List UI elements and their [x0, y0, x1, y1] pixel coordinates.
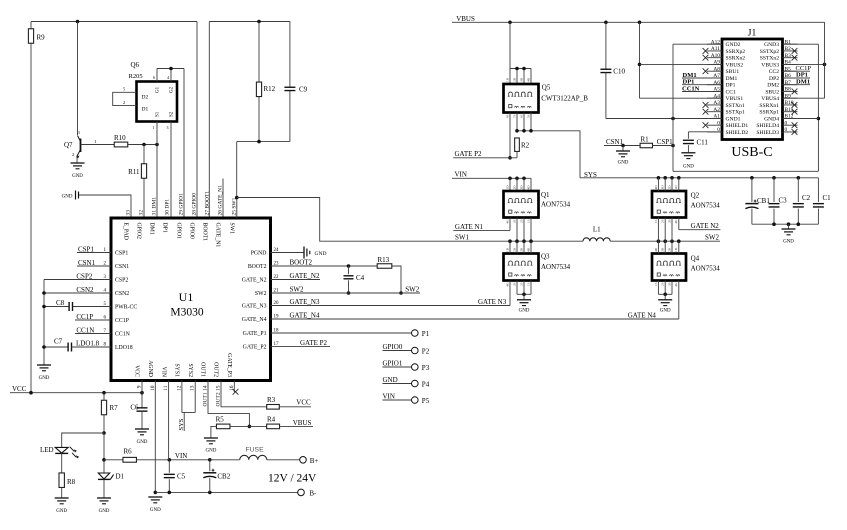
svg-text:4: 4	[167, 75, 169, 80]
wire SYS to Q2 drains	[658, 178, 678, 191]
ground D1	[97, 498, 111, 514]
svg-text:7S: 7S	[512, 114, 516, 118]
svg-text:GND4: GND4	[764, 116, 779, 122]
svg-text:CSN1: CSN1	[606, 138, 624, 146]
svg-text:GND: GND	[618, 161, 629, 166]
svg-text:Q7: Q7	[64, 141, 73, 149]
svg-text:CC1: CC1	[726, 89, 736, 95]
svg-text:USB-C: USB-C	[731, 145, 772, 160]
svg-text:VBUS3: VBUS3	[761, 62, 779, 68]
svg-text:GATE_P2: GATE_P2	[243, 344, 267, 350]
wire OUT1 pin 14 to R5/R4 node	[208, 381, 251, 429]
svg-text:GATE N3: GATE N3	[478, 298, 507, 306]
svg-text:C5: C5	[177, 473, 186, 481]
wire VCC pin 9	[141, 381, 143, 393]
svg-text:CSN2: CSN2	[115, 291, 129, 297]
svg-text:3S: 3S	[667, 219, 671, 223]
wire CC1P pin 6 stub	[75, 313, 111, 321]
svg-text:1D: 1D	[674, 247, 678, 252]
svg-text:GPIO1: GPIO1	[176, 223, 182, 240]
resistor R8	[59, 473, 76, 498]
svg-text:CC1P: CC1P	[76, 313, 93, 321]
svg-text:AON7534: AON7534	[541, 263, 571, 271]
transistor Q1 AON7534	[504, 185, 571, 224]
svg-text:2: 2	[72, 152, 74, 157]
resistor R9	[28, 22, 45, 393]
transistor Q2 AON7534	[652, 185, 720, 224]
op-amp U1 M3030 body	[104, 185, 280, 407]
connector P2	[412, 347, 430, 355]
wire ground loop below USB-C	[673, 44, 820, 171]
node SYS label	[178, 413, 185, 432]
capacitor C4	[344, 266, 365, 295]
svg-text:VBUS: VBUS	[456, 15, 475, 23]
svg-text:D2: D2	[142, 95, 149, 101]
resistor R2	[515, 138, 530, 158]
svg-text:Q2: Q2	[691, 192, 700, 200]
svg-text:LDO1.8: LDO1.8	[76, 340, 100, 348]
svg-text:GATE P2: GATE P2	[455, 150, 483, 158]
wire GND4 pin B12	[783, 118, 819, 120]
wire DP1 pin A6	[682, 79, 722, 86]
svg-text:CB2: CB2	[217, 473, 230, 481]
svg-text:DM1: DM1	[726, 76, 738, 82]
svg-text:G1: G1	[156, 86, 161, 93]
svg-text:R11: R11	[128, 168, 140, 176]
svg-text:GATE_N1: GATE_N1	[215, 223, 221, 248]
svg-text:GPIO0: GPIO0	[383, 343, 403, 351]
svg-text:R6: R6	[124, 448, 133, 456]
wire DP2 pin B6 DP1	[783, 72, 811, 79]
svg-text:DM2: DM2	[767, 83, 779, 89]
svg-text:GATE_N2: GATE_N2	[290, 272, 320, 280]
wire Q5 gate	[508, 113, 512, 160]
ground Q4	[658, 300, 672, 314]
resistor R3	[267, 396, 280, 409]
svg-text:1S: 1S	[654, 282, 658, 286]
connector P3	[412, 364, 430, 372]
svg-text:1D: 1D	[505, 185, 509, 190]
wire BOOT2 pin 23	[271, 259, 378, 268]
diode D1 zener	[98, 473, 125, 498]
svg-text:33: 33	[126, 210, 132, 216]
svg-text:CWT3122AP_B: CWT3122AP_B	[541, 95, 588, 103]
svg-text:3D: 3D	[519, 247, 523, 252]
svg-text:PWR-CC: PWR-CC	[115, 305, 137, 311]
svg-text:5S: 5S	[526, 114, 530, 118]
wire Q4 sources to ground	[658, 281, 672, 300]
svg-text:P1: P1	[422, 330, 430, 338]
wire VBUS to Q5 drains	[510, 22, 531, 84]
svg-text:DP1: DP1	[726, 83, 736, 89]
svg-text:1S: 1S	[526, 282, 530, 286]
svg-text:Q1: Q1	[541, 191, 550, 199]
svg-text:CSN1: CSN1	[78, 259, 96, 267]
svg-text:SSRXp2: SSRXp2	[726, 49, 746, 55]
svg-text:26 GATE_N1: 26 GATE_N1	[218, 185, 224, 216]
wire SW2 rail	[610, 234, 720, 244]
svg-text:4D: 4D	[654, 185, 658, 190]
wire CSN1 pin 2 stub	[77, 259, 111, 267]
wire R10 to DM1 node	[128, 143, 159, 147]
svg-text:3D: 3D	[519, 185, 523, 190]
svg-text:C9: C9	[299, 86, 308, 94]
wire SYS1 SYS2 pins 12 13	[182, 381, 195, 413]
transistor Q5 CWT3122AP_B	[504, 77, 589, 118]
svg-text:4G: 4G	[674, 282, 678, 287]
connector B-	[298, 489, 317, 497]
wire CSP1 pin 1 stub	[77, 246, 111, 254]
svg-text:LED: LED	[40, 446, 54, 454]
capacitor C7 on LDO18 pin 8	[44, 338, 111, 352]
wire Q1 sources to SW1	[517, 218, 531, 242]
svg-text:3S: 3S	[512, 219, 516, 223]
wire OUT2 pin 15 to R3	[221, 381, 267, 407]
svg-text:LDO18: LDO18	[115, 345, 133, 351]
svg-text:2D: 2D	[667, 185, 671, 190]
svg-text:DM1: DM1	[796, 78, 810, 85]
svg-text:SSTXp1: SSTXp1	[726, 110, 745, 116]
svg-text:4G: 4G	[505, 219, 509, 224]
wire CC2 pin B5 CC1P	[783, 65, 812, 72]
resistor R7	[101, 393, 118, 433]
svg-text:C11: C11	[697, 139, 709, 147]
svg-text:Q6: Q6	[131, 61, 140, 69]
svg-text:VBUS: VBUS	[293, 419, 312, 427]
svg-text:SHIELD3: SHIELD3	[756, 130, 779, 136]
svg-text:Q4: Q4	[691, 255, 700, 263]
svg-text:CC1P: CC1P	[115, 318, 129, 324]
svg-text:GND: GND	[137, 440, 148, 445]
svg-text:GATE N2: GATE N2	[691, 222, 720, 230]
svg-text:SW2: SW2	[255, 291, 267, 297]
wire ground bus GND2 pin A12	[673, 44, 722, 171]
wire Q5 sources to SYS	[515, 113, 580, 178]
svg-text:SYS2: SYS2	[187, 363, 193, 377]
svg-text:1D: 1D	[674, 185, 678, 190]
svg-text:SHIELD4: SHIELD4	[756, 123, 779, 129]
svg-text:2S: 2S	[519, 282, 523, 286]
svg-text:GATE_N4: GATE_N4	[290, 312, 320, 320]
svg-text:C2: C2	[802, 194, 811, 202]
svg-text:C7: C7	[54, 338, 63, 346]
connector P4	[412, 380, 430, 388]
ground CSN1	[616, 146, 630, 166]
wire R6 to VIN node	[137, 452, 210, 462]
svg-text:SW2: SW2	[405, 286, 420, 294]
svg-text:R8: R8	[67, 478, 76, 486]
svg-text:P5: P5	[422, 397, 430, 405]
svg-text:R7: R7	[110, 404, 119, 412]
wire Q3 gate to GATE_N3	[509, 281, 511, 306]
svg-text:BOOT2: BOOT2	[248, 264, 267, 270]
svg-text:31 DM1: 31 DM1	[152, 197, 158, 216]
wire CSN1 stub	[604, 138, 640, 147]
svg-text:3S: 3S	[512, 282, 516, 286]
svg-text:R3: R3	[267, 396, 276, 404]
svg-text:SW1: SW1	[229, 223, 235, 235]
wire SW2 to Q4 drains	[658, 241, 678, 253]
svg-text:GATE_N3: GATE_N3	[242, 304, 267, 310]
wire SYS rail	[580, 171, 818, 180]
svg-text:3D: 3D	[661, 185, 665, 190]
capacitor C6	[130, 393, 147, 429]
svg-text:D1: D1	[116, 473, 125, 481]
wire E_PAD pin 33 to ground	[79, 195, 131, 218]
svg-text:SSRXn1: SSRXn1	[759, 103, 779, 109]
svg-text:1D: 1D	[505, 77, 509, 82]
svg-text:CSP1: CSP1	[115, 251, 128, 257]
wire VBUS1 pin A4	[640, 97, 723, 99]
wire VBUS2 pin A9	[640, 63, 723, 65]
transistor Q4 AON7534	[652, 247, 720, 286]
svg-text:SBU1: SBU1	[726, 69, 740, 75]
svg-text:3D: 3D	[661, 247, 665, 252]
wire C10 to GND1 pin A1	[606, 117, 722, 121]
svg-text:L1: L1	[593, 226, 601, 234]
svg-text:GND: GND	[205, 449, 216, 454]
wire PGND pin 24	[271, 252, 305, 254]
svg-text:DP1: DP1	[162, 223, 168, 233]
LED	[40, 444, 79, 459]
svg-text:2D: 2D	[512, 185, 516, 190]
svg-text:AON7534: AON7534	[691, 202, 721, 210]
svg-text:4D: 4D	[526, 247, 530, 252]
svg-text:CSP1: CSP1	[657, 138, 673, 146]
wire CSP2 pin 3	[44, 273, 111, 281]
resistor R6	[104, 448, 136, 463]
svg-text:FUSE: FUSE	[246, 447, 265, 454]
svg-text:GND2: GND2	[726, 42, 741, 48]
svg-text:R12: R12	[264, 85, 276, 93]
svg-text:6S: 6S	[519, 114, 523, 118]
wire VIN pin 11 drop	[168, 381, 170, 460]
svg-text:OUT1: OUT1	[200, 362, 206, 377]
connector P1	[412, 330, 430, 338]
no-connect marks J1 left pins	[703, 48, 709, 128]
wire CSN2 pin 4	[44, 286, 111, 294]
svg-text:S2: S2	[170, 111, 175, 117]
wire R3 to VCC	[279, 399, 311, 407]
inductor L1	[583, 226, 610, 242]
svg-text:SSTXn1: SSTXn1	[726, 103, 745, 109]
svg-text:U1: U1	[179, 290, 194, 304]
transistor Q3 AON7534	[504, 247, 571, 286]
svg-text:GPIO1: GPIO1	[383, 360, 403, 368]
wire Q6 gates G1 G2 to GPIO1	[153, 67, 184, 82]
svg-text:R2: R2	[521, 142, 530, 150]
svg-text:P3: P3	[422, 364, 430, 372]
svg-text:GND3: GND3	[764, 42, 779, 48]
svg-text:2D: 2D	[512, 247, 516, 252]
resistor R12	[256, 22, 275, 142]
svg-text:12V / 24V: 12V / 24V	[268, 473, 317, 485]
connector B+	[300, 457, 319, 465]
svg-text:GATE N1: GATE N1	[455, 223, 484, 231]
svg-text:GND: GND	[383, 376, 398, 384]
capacitor C1	[813, 178, 831, 224]
svg-text:D1: D1	[142, 107, 149, 113]
no-connect marks J1 right pins	[792, 48, 798, 135]
wire Q3 sources to ground	[517, 281, 531, 300]
wire GATE_N1 pin 26 stub	[222, 179, 224, 219]
svg-text:GND: GND	[315, 251, 327, 257]
svg-text:2D: 2D	[667, 247, 671, 252]
ground caps bank	[782, 229, 796, 245]
svg-text:GND: GND	[72, 174, 83, 179]
ground PGND	[304, 247, 326, 259]
svg-text:P2: P2	[422, 348, 430, 356]
svg-text:VCC: VCC	[134, 365, 140, 377]
svg-text:2S: 2S	[661, 282, 665, 286]
svg-text:GND: GND	[660, 309, 671, 314]
svg-text:GND: GND	[783, 240, 794, 245]
transistor Q7	[64, 130, 97, 163]
svg-text:VCC: VCC	[12, 385, 27, 393]
svg-text:BOOT2: BOOT2	[290, 259, 313, 267]
ground C6	[135, 429, 149, 445]
svg-text:SBU2: SBU2	[765, 89, 779, 95]
svg-text:R10: R10	[114, 134, 126, 142]
connector J1 USB-C body	[707, 29, 798, 161]
wire VCC pull-up top rail	[31, 20, 197, 24]
wire GATE_N4 pin 19	[271, 312, 679, 320]
svg-text:SYS: SYS	[178, 418, 185, 430]
svg-text:GATE_N2: GATE_N2	[242, 278, 267, 284]
svg-text:GND: GND	[56, 509, 67, 514]
wire SW1 from pin 25	[235, 196, 583, 243]
svg-text:3D: 3D	[519, 77, 523, 82]
svg-text:VIN: VIN	[160, 367, 166, 378]
wire VBUS4 pin B9	[783, 97, 825, 99]
wire Q2 gate to GATE_N2	[679, 218, 721, 231]
ground Q3	[517, 300, 531, 314]
wire BOOT1 top rail	[209, 20, 290, 24]
wire pin 18 to P1	[271, 332, 412, 334]
wire CCIN pin A5	[682, 85, 722, 92]
wire VIN to P5	[383, 393, 412, 401]
svg-text:M3030: M3030	[170, 307, 203, 319]
svg-text:BOOT1: BOOT1	[202, 223, 208, 242]
svg-text:B+: B+	[310, 457, 319, 465]
wire GATE_N2 pin 22 stub	[271, 272, 321, 280]
svg-text:Q3: Q3	[541, 253, 550, 261]
svg-text:CSN1: CSN1	[115, 264, 129, 270]
wire Q6 S2 to DP1 pin 30	[167, 122, 172, 219]
svg-text:CC1N: CC1N	[115, 332, 131, 338]
svg-text:R205: R205	[129, 73, 143, 80]
svg-text:C10: C10	[613, 68, 625, 76]
capacitor C8 on PWR-CC pin 5	[44, 299, 111, 311]
svg-text:CB1: CB1	[757, 197, 770, 205]
svg-text:GND: GND	[150, 508, 161, 513]
wire GPIO0 to P2	[383, 343, 412, 351]
capacitor C3	[769, 178, 788, 224]
svg-text:SSTXp2: SSTXp2	[760, 49, 779, 55]
svg-text:30 DP1: 30 DP1	[165, 199, 171, 216]
wire SW1 to Q3 drains	[510, 241, 531, 253]
svg-text:32: 32	[139, 210, 145, 216]
ground R5	[204, 438, 218, 454]
wire LED to R8	[61, 453, 63, 473]
wire VIN rail	[452, 171, 531, 181]
svg-text:SYS1: SYS1	[174, 363, 180, 377]
svg-text:CSP1: CSP1	[78, 246, 94, 254]
svg-text:1: 1	[153, 125, 155, 130]
wire VBUS rail	[452, 15, 825, 24]
svg-text:GPIO0: GPIO0	[189, 223, 195, 240]
wire Q2 sources to SW2	[658, 218, 672, 242]
svg-text:VIN: VIN	[455, 171, 467, 179]
svg-text:CSP2: CSP2	[76, 273, 92, 281]
svg-text:GND: GND	[99, 509, 110, 514]
svg-text:SSRXn2: SSRXn2	[726, 56, 746, 62]
svg-text:GND: GND	[683, 165, 694, 170]
wire ground bus left of U1	[42, 280, 46, 366]
capacitor C9	[284, 22, 307, 142]
capacitor CB1	[745, 178, 770, 224]
ground Q7 emitter	[71, 163, 85, 179]
wire GPIO1 pin 29 riser	[183, 69, 185, 219]
svg-text:SSTXn2: SSTXn2	[760, 56, 779, 62]
wire AGND pin 10 drop	[154, 381, 158, 495]
svg-text:GATE_N3: GATE_N3	[290, 298, 320, 306]
wire GATE_N3 pin 20	[271, 298, 511, 306]
capacitor C11	[683, 132, 722, 153]
svg-text:SW2: SW2	[705, 234, 720, 242]
svg-text:C1: C1	[823, 194, 832, 202]
svg-text:R9: R9	[37, 34, 46, 42]
svg-text:CC1N: CC1N	[76, 327, 94, 335]
svg-text:DP2: DP2	[769, 76, 779, 82]
wire R7 to LED branch	[62, 431, 106, 443]
ground C11	[681, 153, 695, 170]
svg-text:VBUS1: VBUS1	[726, 96, 744, 102]
svg-text:GATE_P1: GATE_P1	[243, 331, 267, 337]
ground AGND	[148, 497, 162, 513]
svg-text:R1: R1	[641, 136, 650, 144]
svg-text:4D: 4D	[526, 77, 530, 82]
resistor R4	[249, 416, 279, 429]
transistor Q6 R205	[129, 61, 178, 122]
svg-text:OUT2: OUT2	[213, 362, 219, 377]
wire R7 to D1/R6 node	[102, 433, 106, 473]
svg-text:1: 1	[95, 139, 97, 144]
svg-text:8S: 8S	[505, 114, 509, 118]
wire GATE_P2 to Q5	[453, 150, 517, 158]
wire Q6 pins 5 and 2 tied	[113, 87, 137, 106]
svg-text:PGND: PGND	[251, 251, 267, 257]
svg-text:VBUS2: VBUS2	[726, 62, 744, 68]
svg-text:SHIELD2: SHIELD2	[726, 130, 749, 136]
resistor R13	[377, 256, 392, 268]
svg-text:2: 2	[123, 100, 125, 105]
text battery voltage	[268, 473, 317, 485]
wire GATE_N1 to Q1 gate	[453, 218, 510, 232]
capacitor CB2	[203, 458, 230, 492]
ground left bus	[37, 365, 51, 381]
svg-text:SW2: SW2	[290, 286, 305, 294]
wire Q4 gate riser	[678, 281, 680, 320]
svg-text:VIN: VIN	[383, 393, 395, 401]
svg-text:S1: S1	[156, 111, 161, 117]
fuse FUSE	[210, 447, 300, 460]
svg-text:R13: R13	[378, 256, 390, 264]
wire caps bottom rail	[752, 222, 819, 228]
svg-text:G2: G2	[170, 86, 175, 93]
capacitor C2	[793, 178, 811, 224]
svg-text:4D: 4D	[654, 247, 658, 252]
